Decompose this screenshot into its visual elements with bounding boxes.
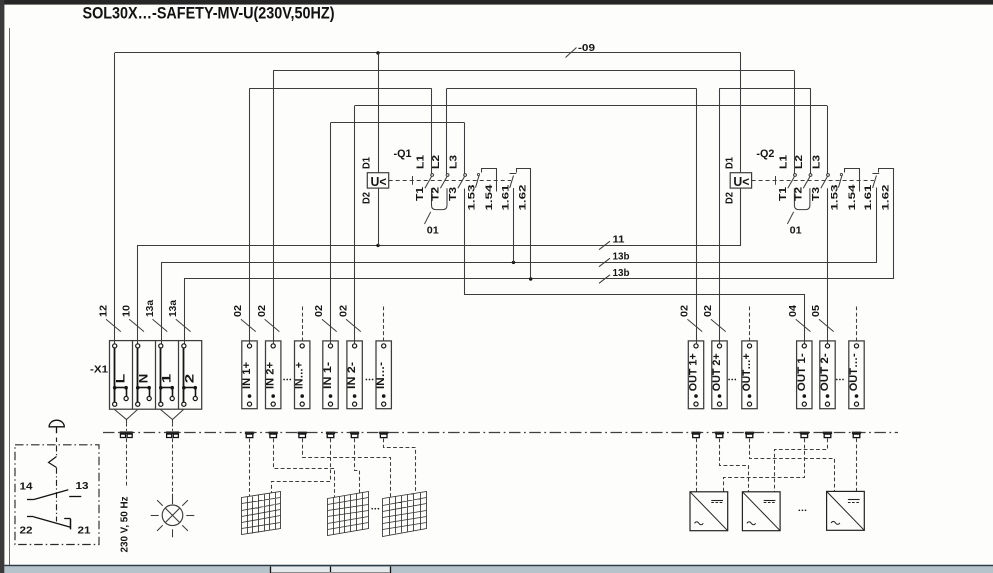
svg-text:OUT 1-: OUT 1- xyxy=(796,353,808,391)
svg-text:1.53: 1.53 xyxy=(467,185,478,211)
svg-text:OUT…-: OUT…- xyxy=(848,353,860,391)
svg-text:D2: D2 xyxy=(362,192,373,204)
svg-text:13b: 13b xyxy=(613,251,630,263)
svg-text:L1: L1 xyxy=(415,154,426,169)
svg-text:T3: T3 xyxy=(811,186,822,201)
svg-text:T2: T2 xyxy=(793,186,804,201)
svg-text:-X1: -X1 xyxy=(90,364,108,376)
svg-text:05: 05 xyxy=(810,305,822,317)
svg-text:IN 2-: IN 2- xyxy=(346,362,358,389)
svg-text:1.62: 1.62 xyxy=(517,185,528,211)
svg-text:13a: 13a xyxy=(167,300,179,317)
svg-text:L1: L1 xyxy=(778,154,789,169)
svg-text:L2: L2 xyxy=(794,154,805,169)
svg-text:T1: T1 xyxy=(778,186,789,201)
svg-text:10: 10 xyxy=(121,305,133,317)
svg-text:02: 02 xyxy=(232,305,244,317)
svg-text:OUT 2+: OUT 2+ xyxy=(711,353,723,391)
svg-text:OUT 1+: OUT 1+ xyxy=(688,353,700,391)
svg-text:OUT…+: OUT…+ xyxy=(741,353,753,391)
svg-text:L: L xyxy=(113,374,127,384)
svg-text:L2: L2 xyxy=(431,154,442,169)
svg-text:-Q1: -Q1 xyxy=(394,148,412,160)
svg-text:230 V, 50 Hz: 230 V, 50 Hz xyxy=(118,497,130,553)
svg-text:02: 02 xyxy=(313,305,325,317)
svg-text:-Q2: -Q2 xyxy=(756,148,774,160)
svg-text:T3: T3 xyxy=(448,186,459,201)
svg-text:22: 22 xyxy=(20,525,33,537)
svg-text:1: 1 xyxy=(159,373,173,383)
svg-text:04: 04 xyxy=(787,305,799,317)
svg-text:N: N xyxy=(136,374,150,384)
svg-text:U<: U< xyxy=(733,175,749,189)
svg-text:IN…-: IN…- xyxy=(375,362,387,389)
svg-text:IN 1-: IN 1- xyxy=(322,362,334,389)
svg-text:IN 1+: IN 1+ xyxy=(241,362,253,389)
svg-text:U<: U< xyxy=(371,175,387,189)
svg-text:01: 01 xyxy=(427,225,439,237)
svg-text:11: 11 xyxy=(613,234,625,246)
svg-text:T2: T2 xyxy=(430,186,441,201)
svg-text:D2: D2 xyxy=(725,192,736,204)
svg-text:1.62: 1.62 xyxy=(880,185,891,211)
svg-text:13b: 13b xyxy=(613,267,630,279)
svg-text:2: 2 xyxy=(182,373,196,383)
svg-text:02: 02 xyxy=(702,305,714,317)
svg-text:D1: D1 xyxy=(362,157,373,169)
svg-text:13a: 13a xyxy=(144,300,156,317)
svg-text:02: 02 xyxy=(256,305,268,317)
svg-text:IN…+: IN…+ xyxy=(294,362,306,389)
svg-text:01: 01 xyxy=(790,225,802,237)
svg-text:1.54: 1.54 xyxy=(847,184,858,211)
svg-text:02: 02 xyxy=(337,305,349,317)
svg-text:1.61: 1.61 xyxy=(863,184,874,211)
svg-text:SOL30X…-SAFETY-MV-U(230V,50HZ): SOL30X…-SAFETY-MV-U(230V,50HZ) xyxy=(83,4,335,22)
svg-text:1.54: 1.54 xyxy=(484,184,495,211)
svg-text:1.53: 1.53 xyxy=(830,185,841,211)
svg-text:21: 21 xyxy=(78,525,91,537)
svg-text:L3: L3 xyxy=(448,154,459,169)
svg-text:13: 13 xyxy=(76,480,89,492)
svg-text:L3: L3 xyxy=(811,154,822,169)
svg-text:OUT 2-: OUT 2- xyxy=(819,353,831,391)
svg-text:14: 14 xyxy=(20,481,33,493)
svg-text:1.61: 1.61 xyxy=(500,184,511,211)
svg-text:02: 02 xyxy=(679,305,691,317)
svg-text:IN 2+: IN 2+ xyxy=(265,362,277,389)
svg-text:D1: D1 xyxy=(725,157,736,169)
svg-text:T1: T1 xyxy=(415,186,426,201)
svg-text:12: 12 xyxy=(97,305,109,317)
svg-text:-09: -09 xyxy=(578,42,595,54)
